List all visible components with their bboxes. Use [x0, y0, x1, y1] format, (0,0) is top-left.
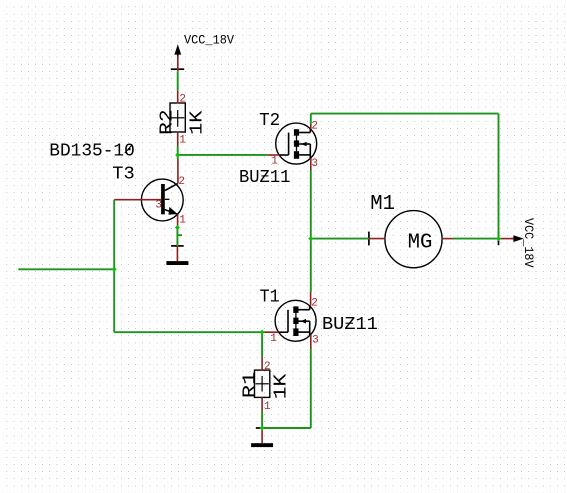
svg-text:1: 1	[271, 155, 278, 167]
svg-text:M1: M1	[370, 193, 395, 216]
svg-text:2: 2	[311, 298, 318, 310]
svg-text:VCC_18V: VCC_18V	[521, 218, 535, 268]
svg-text:BD135-10: BD135-10	[49, 142, 135, 162]
svg-text:2: 2	[178, 176, 185, 188]
svg-text:1: 1	[179, 215, 186, 227]
svg-text:3: 3	[155, 199, 162, 211]
svg-text:BUZ11: BUZ11	[239, 168, 290, 188]
svg-text:1K: 1K	[271, 374, 291, 400]
svg-text:2: 2	[264, 361, 271, 373]
svg-text:1: 1	[179, 134, 186, 146]
svg-text:T3: T3	[112, 164, 134, 184]
svg-text:2: 2	[179, 94, 186, 106]
svg-text:1: 1	[264, 401, 271, 413]
svg-text:1: 1	[270, 333, 277, 345]
svg-text:3: 3	[312, 335, 319, 347]
svg-text:R1: R1	[241, 372, 261, 399]
svg-text:R2: R2	[158, 109, 178, 135]
svg-text:MG: MG	[408, 232, 433, 255]
svg-text:1K: 1K	[188, 111, 208, 135]
svg-text:T2: T2	[259, 111, 280, 131]
svg-text:VCC_18V: VCC_18V	[184, 34, 234, 48]
svg-text:2: 2	[311, 121, 318, 133]
svg-text:3: 3	[311, 158, 318, 170]
svg-text:BUZ11: BUZ11	[322, 315, 378, 335]
svg-text:T1: T1	[260, 288, 280, 308]
